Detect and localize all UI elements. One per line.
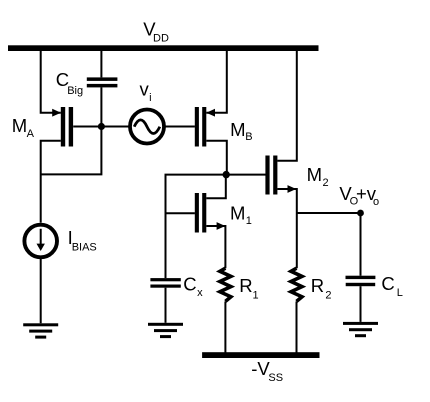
M2 source arrow	[288, 185, 297, 193]
node output	[357, 210, 364, 217]
wire M2 source down to R2	[277, 189, 296, 268]
wire node to vi source	[101, 126, 131, 128]
resistor R2	[291, 268, 302, 301]
label R1	[239, 275, 258, 302]
wire VDD to MA source	[41, 50, 61, 112]
wire node line to M2 gate	[166, 175, 266, 279]
transistor M2 (NMOS)	[265, 156, 269, 195]
node A (MA gate / CBig / vi junction)	[98, 123, 105, 130]
VDD rail	[8, 45, 319, 51]
svg-text:C: C	[183, 273, 196, 294]
svg-text:i: i	[149, 92, 151, 104]
wire IBIAS to ground	[40, 258, 42, 324]
svg-text:x: x	[197, 287, 203, 299]
svg-text:R: R	[311, 275, 324, 296]
wire MB drain to node D	[206, 141, 227, 175]
ground (IBIAS)	[23, 323, 58, 338]
label MB	[230, 119, 252, 143]
wire M1 source down to R1	[206, 226, 225, 268]
wire M2 drain to VDD	[277, 50, 296, 161]
label vi	[140, 79, 152, 105]
label VO+vo	[339, 183, 379, 208]
svg-text:o: o	[373, 196, 379, 208]
svg-text:C: C	[381, 273, 394, 294]
capacitor CBig	[87, 77, 118, 81]
svg-text:M: M	[230, 203, 245, 224]
wire node down and across to IBIAS column	[41, 127, 102, 175]
label CL	[381, 273, 402, 299]
IBIAS arrow	[40, 229, 42, 246]
svg-text:v: v	[140, 79, 150, 100]
capacitor CX	[150, 278, 180, 281]
ground (CX)	[148, 323, 183, 338]
transistor MA (PMOS, mirrored: channel bar left, gate bar right)	[61, 107, 65, 147]
label VDD	[143, 18, 169, 44]
wire CBig to node	[100, 87, 102, 126]
svg-text:M: M	[230, 119, 245, 140]
current source IBIAS	[24, 225, 57, 258]
source vi (sine generator)	[130, 110, 164, 144]
wire vi to MB gate	[163, 126, 195, 128]
node D (MB drain / M1 drain / gates junction)	[223, 171, 230, 178]
wire R1 to VSS rail	[224, 301, 226, 353]
label M1	[230, 203, 252, 227]
wire output line	[297, 212, 361, 214]
VSS rail	[202, 352, 319, 358]
resistor R1	[220, 268, 231, 301]
svg-text:M: M	[12, 115, 27, 136]
label IBIAS	[68, 227, 97, 253]
wire VDD to CBig	[100, 50, 102, 77]
svg-text:M: M	[307, 164, 322, 185]
svg-text:1: 1	[253, 289, 259, 301]
svg-text:2: 2	[323, 177, 329, 189]
ground (CL)	[343, 322, 378, 337]
wire CX to ground	[165, 288, 167, 323]
svg-text:DD: DD	[153, 33, 169, 45]
label M2	[307, 164, 329, 189]
svg-text:L: L	[397, 287, 403, 299]
svg-text:Big: Big	[67, 85, 83, 97]
capacitor CL	[346, 276, 376, 279]
wire M1 drain to node D	[206, 175, 226, 199]
transistor MB (PMOS: gate bar left, channel bar right)	[195, 107, 199, 147]
svg-text:R: R	[239, 275, 252, 296]
svg-text:BIAS: BIAS	[72, 241, 97, 253]
label MA	[12, 115, 35, 140]
svg-text:A: A	[27, 128, 35, 140]
wire MB source to VDD	[206, 50, 227, 112]
wire output node to CL	[360, 213, 362, 276]
label CBig	[56, 69, 83, 97]
svg-text:2: 2	[325, 289, 331, 301]
svg-text:B: B	[245, 131, 252, 143]
M1 source arrow	[217, 222, 226, 230]
wire R2 to VSS rail	[296, 301, 298, 353]
MA source arrow	[52, 109, 61, 117]
svg-text:1: 1	[246, 215, 252, 227]
wire CL to ground	[360, 286, 362, 322]
MB source arrow	[206, 109, 215, 117]
transistor M1 (NMOS)	[195, 193, 199, 233]
wire M1 gate	[166, 212, 195, 214]
label CX	[183, 273, 203, 299]
wire MA drain	[41, 141, 61, 223]
svg-text:SS: SS	[268, 372, 283, 384]
wire MA gate to node	[73, 126, 101, 128]
label R2	[311, 275, 332, 302]
label -VSS	[251, 358, 283, 384]
